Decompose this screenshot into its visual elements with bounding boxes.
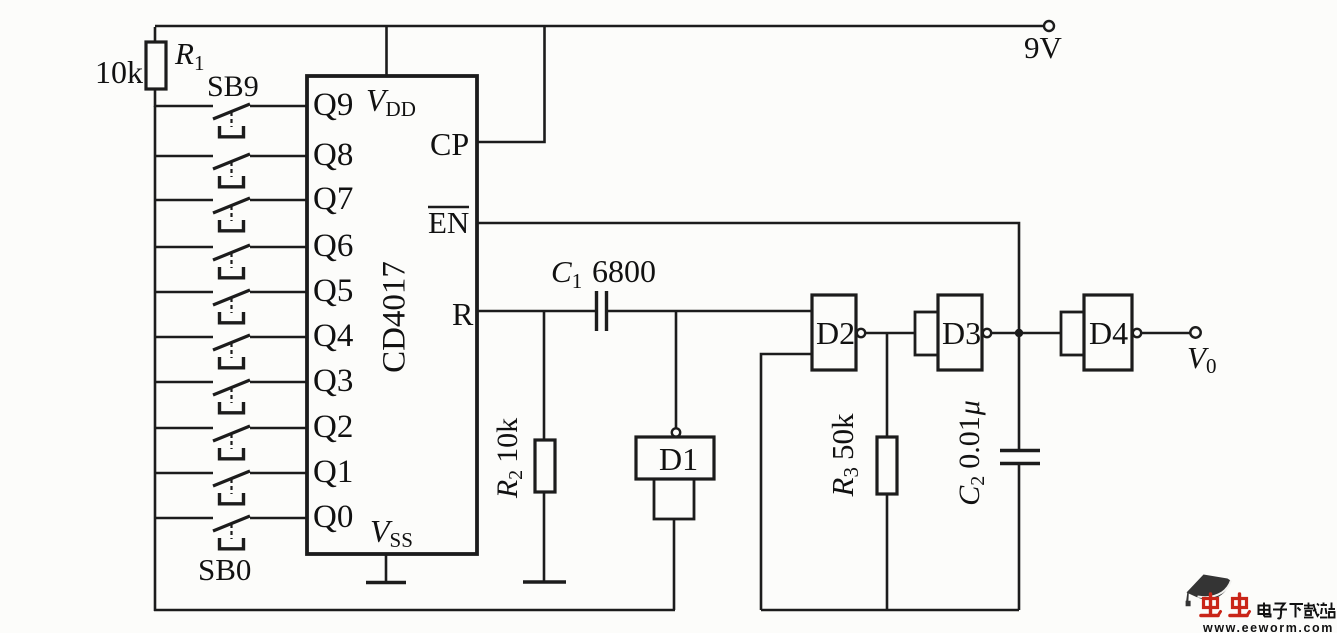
wire: bottom rail left section bbox=[154, 609, 675, 612]
svg-text:D1: D1 bbox=[659, 441, 698, 477]
gate D4 output bubble bbox=[1133, 329, 1141, 337]
resistor R2 bbox=[535, 440, 555, 581]
ground for VSS bbox=[366, 581, 406, 585]
pushbutton switch SB6 bbox=[155, 245, 307, 278]
svg-text:Q5: Q5 bbox=[313, 273, 353, 309]
svg-text:Q0: Q0 bbox=[313, 499, 353, 535]
svg-text:R350k: R350k bbox=[825, 413, 863, 497]
svg-text:Q6: Q6 bbox=[313, 228, 353, 264]
gate D1 lower stage box bbox=[654, 479, 694, 519]
svg-text:D3: D3 bbox=[942, 315, 981, 351]
resistor R3 bbox=[877, 437, 897, 610]
svg-text:VSS: VSS bbox=[370, 513, 413, 552]
svg-text:Q2: Q2 bbox=[313, 409, 353, 445]
resistor R1 bbox=[146, 27, 166, 107]
svg-text:www.eeworm.com: www.eeworm.com bbox=[1202, 621, 1334, 633]
svg-text:CD4017: CD4017 bbox=[377, 261, 413, 373]
svg-text:Q8: Q8 bbox=[313, 137, 353, 173]
logo: eeworm graduation cap bbox=[1186, 575, 1231, 607]
gate D3 input box bbox=[915, 312, 938, 355]
capacitor C1 bbox=[597, 291, 607, 331]
svg-text:9V: 9V bbox=[1024, 30, 1063, 65]
svg-text:R: R bbox=[452, 296, 474, 332]
pushbutton switch SB7 bbox=[155, 198, 307, 231]
pushbutton switch SB2 bbox=[155, 426, 307, 459]
pushbutton switch SB5 bbox=[155, 290, 307, 323]
svg-text:D2: D2 bbox=[816, 315, 855, 351]
svg-text:V0: V0 bbox=[1187, 340, 1216, 378]
wire: VDD to top rail bbox=[385, 26, 388, 76]
capacitor C2 bbox=[1000, 451, 1040, 464]
svg-text:R210k: R210k bbox=[491, 418, 527, 499]
gate D1 body bbox=[636, 437, 714, 479]
svg-text:Q1: Q1 bbox=[313, 454, 353, 490]
svg-text:C1: C1 bbox=[551, 254, 582, 293]
ground for R2 bbox=[523, 580, 566, 584]
wire: left bus from R1 down to bottom rail bbox=[154, 106, 157, 611]
pushbutton switch SB8 bbox=[155, 154, 307, 187]
logo: red worm characters bbox=[1201, 594, 1221, 616]
svg-text:Q4: Q4 bbox=[313, 318, 353, 354]
terminal: V0 output bbox=[1190, 327, 1200, 337]
wire: D1 input drop from R line bbox=[675, 311, 678, 428]
pushbutton switch SB9 bbox=[155, 104, 307, 137]
svg-text:Q7: Q7 bbox=[313, 181, 353, 217]
wire: R pin to C1 bbox=[477, 310, 596, 313]
gate D1 input bubble bbox=[672, 428, 680, 436]
pushbutton switch SB3 bbox=[155, 380, 307, 413]
wire: C2 to bottom rail bbox=[1018, 463, 1021, 610]
gate D2 output bubble bbox=[857, 329, 865, 337]
svg-text:Q3: Q3 bbox=[313, 363, 353, 399]
wire: D3 output to D4 bbox=[992, 332, 1061, 335]
wire: bottom rail right section bbox=[761, 609, 1019, 612]
svg-text:R1: R1 bbox=[174, 36, 204, 75]
svg-text:VDD: VDD bbox=[366, 82, 416, 121]
svg-text:C20.01μ: C20.01μ bbox=[953, 400, 989, 506]
svg-text:Q9: Q9 bbox=[313, 87, 353, 123]
gate D3 output bubble bbox=[983, 329, 991, 337]
gate D4 input box bbox=[1061, 312, 1084, 355]
wire: D4 output to V0 terminal bbox=[1142, 332, 1190, 335]
svg-text:6800: 6800 bbox=[592, 253, 656, 289]
wire: R3 tap bbox=[886, 333, 889, 437]
wire: D1 to bottom rail bbox=[673, 519, 676, 610]
svg-text:EN: EN bbox=[428, 205, 469, 240]
wire: CP to top rail bbox=[477, 26, 545, 142]
wire: EN line to D3/D4 node bbox=[477, 223, 1019, 450]
node: junction dot D3/D4/EN/C2 bbox=[1015, 329, 1023, 337]
wire: D2 feedback input bbox=[761, 354, 812, 610]
pushbutton switch SB0 bbox=[155, 516, 307, 549]
gate D3 body bbox=[938, 295, 982, 370]
svg-text:D4: D4 bbox=[1089, 315, 1128, 351]
IC U1 CD4017 body bbox=[307, 76, 477, 554]
terminal: 9V supply bbox=[1044, 21, 1054, 31]
svg-text:SB0: SB0 bbox=[198, 552, 251, 587]
gate D4 body bbox=[1084, 295, 1132, 370]
svg-text:CP: CP bbox=[430, 126, 469, 162]
pushbutton switch SB4 bbox=[155, 335, 307, 368]
svg-text:10k: 10k bbox=[95, 54, 143, 90]
wire: R2 tap down bbox=[543, 311, 546, 440]
svg-text:SB9: SB9 bbox=[207, 70, 259, 103]
wire: VSS to ground bbox=[385, 554, 388, 581]
wire: +9V top rail bbox=[155, 25, 1044, 28]
wire: C1 to D2 input bbox=[606, 310, 812, 313]
gate D2 body bbox=[812, 295, 856, 370]
wire: D2 output to D3 bbox=[866, 332, 915, 335]
logo: site name characters bbox=[1259, 603, 1271, 617]
pushbutton switch SB1 bbox=[155, 471, 307, 504]
